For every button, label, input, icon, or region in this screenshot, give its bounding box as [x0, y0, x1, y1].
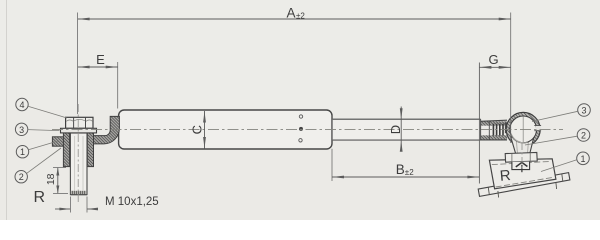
dim A extension line left: [77, 13, 79, 115]
rod end threaded sleeve: [481, 119, 509, 140]
piston rod: [333, 119, 481, 140]
svg-text:2: 2: [581, 131, 586, 141]
callout circle 4 left: [16, 98, 67, 118]
dim D line: [400, 107, 403, 152]
ball socket eye: [506, 112, 540, 146]
dim E extension line right: [117, 62, 119, 109]
stem center line: [521, 143, 523, 171]
callout circle 1 left: [16, 141, 58, 158]
cylinder vent hole top: [299, 115, 302, 118]
dim G line: [479, 66, 510, 69]
callout circle 3 left: [15, 123, 59, 135]
svg-text:G: G: [489, 52, 499, 67]
svg-text:±2: ±2: [405, 168, 414, 177]
flange ear inner line right: [562, 174, 563, 181]
ball stud stem: [511, 137, 534, 153]
left fitting: grommet left band: [63, 133, 69, 167]
ball: [510, 116, 541, 143]
dim B extension line left: [331, 149, 333, 181]
svg-text:1: 1: [580, 154, 585, 164]
left fitting: grommet right band: [87, 133, 93, 167]
bracket dashed center line upper: [492, 161, 551, 164]
thread bars in sleeve bore: [492, 124, 494, 136]
callout circle 1 right: [541, 152, 589, 172]
dim E line: [78, 66, 118, 69]
stem clamp block: [505, 152, 537, 162]
dim A line: [78, 18, 511, 21]
page fold line: [6, 0, 8, 220]
svg-text:D: D: [388, 125, 403, 134]
svg-text:A: A: [287, 5, 296, 20]
svg-text:3: 3: [19, 125, 24, 135]
flange hole mark right: [555, 183, 558, 190]
cylinder vent hole bottom: [299, 139, 302, 142]
thread dim arrows: [55, 208, 98, 211]
flange hole mark left: [497, 191, 500, 198]
thread dim extension lines: [69, 197, 71, 213]
socket clamp slot: [536, 126, 541, 131]
threaded stud M10: [70, 133, 87, 195]
cylinder body: [119, 110, 332, 149]
top washer: [61, 128, 97, 133]
flange ear inner line left: [488, 188, 489, 195]
callout circle 2 left: [15, 148, 61, 183]
hex nut: [66, 117, 93, 128]
svg-text:18: 18: [45, 173, 57, 185]
svg-text:E: E: [96, 52, 105, 67]
dim 18 line: [56, 168, 59, 194]
svg-text:1: 1: [20, 147, 25, 157]
callout circle 3 right: [532, 104, 590, 122]
svg-text:4: 4: [19, 100, 24, 110]
bracket base flange: [478, 173, 570, 197]
svg-text:R: R: [34, 189, 46, 206]
callout circle 2 right: [525, 129, 590, 145]
dim B line: [332, 176, 479, 179]
svg-text:R: R: [499, 167, 511, 185]
svg-text:2: 2: [19, 172, 24, 182]
bracket dashed center line lower: [496, 177, 553, 187]
dim C line: [203, 111, 206, 149]
main axis center line: [52, 128, 563, 130]
clamp claw marker: [512, 162, 530, 173]
stud center line: [77, 104, 79, 204]
svg-text:±2: ±2: [296, 11, 305, 20]
dim 18 extension ticks: [53, 167, 66, 169]
dim A extension line right: [510, 13, 512, 144]
L-strap bracket to cylinder: [94, 116, 120, 143]
svg-text:B: B: [396, 162, 405, 177]
bracket plate: [489, 159, 556, 189]
left fitting: grommet left tab: [52, 137, 64, 146]
svg-text:C: C: [189, 125, 204, 134]
dim G extension line left: [478, 63, 480, 184]
svg-text:M 10x1,25: M 10x1,25: [105, 196, 159, 208]
cylinder fill dot middle: [299, 127, 303, 131]
svg-text:3: 3: [581, 106, 586, 116]
